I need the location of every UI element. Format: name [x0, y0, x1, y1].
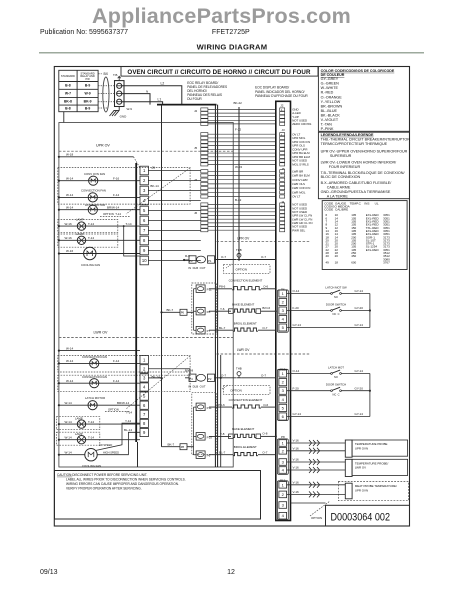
- terminal block T.B.: [115, 81, 125, 107]
- option dashed box upper: [223, 265, 270, 274]
- wire gauge table: [322, 201, 407, 270]
- svg-text:BROIL ELEMENT: BROIL ELEMENT: [234, 322, 257, 326]
- wire W-14 lower top: [59, 350, 140, 352]
- svg-text:CONVECTION ELEMENT: CONVECTION ELEMENT: [229, 278, 263, 282]
- svg-text:T-14: T-14: [88, 222, 94, 226]
- relay P6 lower broil: [196, 451, 205, 459]
- P13 pin 6: [279, 413, 287, 420]
- P8 pin 1: [279, 440, 287, 447]
- svg-text:BL-7: BL-7: [219, 450, 226, 454]
- arrow above terminal block: [118, 76, 121, 80]
- svg-text:DOOR SWITCH: DOOR SWITCH: [326, 383, 346, 387]
- svg-text:F-14: F-14: [113, 379, 120, 383]
- temperature probe lower oven box: [352, 459, 408, 475]
- svg-text:F-16: F-16: [113, 176, 120, 180]
- svg-text:W-7: W-7: [65, 92, 71, 96]
- wire L2 from terminal block: [122, 86, 182, 105]
- svg-text:OPTION: OPTION: [311, 516, 322, 520]
- svg-text:L2: L2: [161, 81, 165, 85]
- connector J6 pins (harness left): [201, 203, 208, 232]
- wire T-14 branch to pin 10: [124, 226, 140, 256]
- svg-text:TEMPERATURE PROBE/: TEMPERATURE PROBE/: [355, 461, 389, 465]
- svg-text:B/O-6: B/O-6: [262, 306, 270, 310]
- P12 pin 2: [279, 491, 287, 498]
- svg-text:10: 10: [142, 258, 147, 263]
- board connector J4 pins: [280, 203, 285, 232]
- connector lower pins 1-9: [140, 356, 148, 437]
- harness connector bar (left of ribbon): [214, 105, 216, 467]
- motor lower cooling fan: [59, 454, 85, 456]
- svg-text:W-14: W-14: [65, 435, 72, 439]
- svg-text:W-16: W-16: [65, 236, 72, 240]
- P8 pin 2: [279, 448, 287, 455]
- svg-text:T.B.: T.B.: [113, 73, 118, 77]
- svg-text:B-22: B-22: [235, 198, 242, 202]
- svg-text:P8: P8: [181, 445, 185, 449]
- svg-text:CAUTION:DISCONNECT POWER BEFOR: CAUTION:DISCONNECT POWER BEFORE SERVICIN…: [57, 473, 147, 477]
- wire P13-3 F-20 to lower door switch: [287, 390, 331, 392]
- svg-text:IN DLB OUT: IN DLB OUT: [188, 384, 206, 388]
- LWR OV dashed separator (left): [59, 336, 233, 338]
- P6 pin 2: [279, 299, 287, 306]
- svg-text:T-14: T-14: [88, 236, 94, 240]
- svg-text:COOLING FAN: COOLING FAN: [82, 464, 101, 468]
- P13 pin 3: [279, 387, 287, 394]
- svg-text:O-7: O-7: [221, 374, 226, 378]
- svg-text:J7: J7: [194, 178, 198, 182]
- svg-text:LWR OV: LWR OV: [355, 466, 366, 470]
- wire door switch to riser: [342, 310, 370, 312]
- svg-text:LAMP: LAMP: [75, 416, 83, 420]
- motor upper conv oven fan: [59, 180, 140, 182]
- EOC display board label: [255, 86, 308, 98]
- P12 pin 1: [279, 482, 287, 489]
- svg-text:BROIL ELEMENT: BROIL ELEMENT: [234, 445, 257, 449]
- svg-text:LW SPEED: LW SPEED: [99, 443, 112, 447]
- svg-text:HIGH SPEED: HIGH SPEED: [103, 450, 119, 454]
- svg-text:P11: P11: [207, 406, 212, 410]
- BK-22 vertical bus wire: [238, 107, 240, 260]
- svg-text:T-14: T-14: [88, 435, 94, 439]
- svg-text:W-14: W-14: [66, 346, 73, 350]
- svg-text:UPR OVN: UPR OVN: [355, 446, 368, 450]
- svg-text:GY-14: GY-14: [355, 323, 364, 327]
- svg-text:O-7: O-7: [262, 450, 267, 454]
- svg-text:UPR OV.-UPPER OVEN/HORNO SUPER: UPR OV.-UPPER OVEN/HORNO SUPERIOR/FOUR: [321, 150, 408, 154]
- svg-text:LAMP: LAMP: [76, 232, 84, 236]
- connector J9 upper body bar: [135, 163, 137, 442]
- svg-text:B-8: B-8: [65, 107, 71, 111]
- svg-text:CONVECTION FAN: CONVECTION FAN: [82, 375, 107, 379]
- wire table to section box: [63, 112, 65, 123]
- svg-text:BK-7: BK-7: [167, 308, 174, 312]
- svg-text:THB: THB: [236, 366, 242, 370]
- svg-text:F-14: F-14: [113, 359, 120, 363]
- motor lower convection fan 1: [59, 362, 140, 364]
- relay P8 upper bake: [196, 307, 205, 315]
- dashed enclosure upper relays: [192, 283, 217, 334]
- svg-text:J2: J2: [280, 104, 284, 108]
- svg-text:CONVECTION FAN: CONVECTION FAN: [82, 355, 107, 359]
- board connector J2 pins: [280, 108, 285, 126]
- lamp upper oven lamp 1: [58, 220, 118, 233]
- svg-text:LATCH MOT SW: LATCH MOT SW: [325, 286, 347, 290]
- wire lower cooling fan low speed Y-14: [96, 423, 141, 450]
- wire P6-5 GY-14: [287, 327, 370, 329]
- svg-text:J5: J5: [282, 167, 286, 171]
- svg-text:49: 49: [326, 260, 330, 264]
- svg-text:B/W-8: B/W-8: [185, 369, 194, 373]
- svg-text:V-16: V-16: [293, 458, 300, 462]
- svg-text:3767: 3767: [383, 260, 390, 264]
- svg-text:F-22: F-22: [235, 128, 242, 132]
- wire P13-1 O-14 to lower latch switch: [287, 373, 331, 375]
- P13 pin 5: [279, 404, 287, 411]
- svg-text:O-7: O-7: [262, 326, 267, 330]
- svg-text:GY-20: GY-20: [355, 386, 364, 390]
- svg-text:20: 20: [335, 254, 339, 258]
- wire L1 from terminal block: [122, 102, 163, 105]
- svg-text:LABEL ALL WIRES PRIOR TO DISCO: LABEL ALL WIRES PRIOR TO DISCONNECTION W…: [66, 477, 186, 481]
- meat probe dashed option box: [338, 482, 408, 501]
- svg-text:WIRING ERRORS CAN CAUSE IMPROP: WIRING ERRORS CAN CAUSE IMPROPER AND DAN…: [66, 482, 179, 486]
- svg-text:GY-14: GY-14: [293, 412, 302, 416]
- upper door switch: [331, 310, 333, 312]
- vertical feed wire upper relays: [194, 289, 197, 330]
- P8 pin 4: [279, 467, 287, 474]
- svg-text:NC C: NC C: [332, 392, 339, 396]
- heavy L1 bus to relay bar: [157, 104, 217, 106]
- svg-text:WIRING DIAGRAM: WIRING DIAGRAM: [197, 43, 268, 52]
- svg-text:DU FOUR: DU FOUR: [187, 97, 202, 101]
- board signal labels J2: [292, 108, 311, 126]
- svg-text:CONVECTION FAN: CONVECTION FAN: [81, 189, 106, 193]
- wire R-6 DLB input: [184, 259, 189, 261]
- wire P6-1 O-14 to latch switch: [287, 293, 331, 295]
- svg-text:P9-6: P9-6: [218, 403, 225, 407]
- board connector J5 pins: [280, 170, 285, 198]
- svg-text:STANDARD: STANDARD: [61, 74, 75, 78]
- svg-text:O-14: O-14: [293, 289, 300, 293]
- upper latch motor switch: [331, 293, 333, 295]
- svg-text:LATCH MOTOR: LATCH MOTOR: [85, 203, 105, 207]
- lamp upper oven lamp 2: [58, 234, 118, 247]
- svg-text:O-6: O-6: [263, 403, 268, 407]
- svg-text:09/13: 09/13: [40, 569, 58, 576]
- svg-text:Y-6: Y-6: [220, 307, 225, 311]
- svg-text:P11: P11: [207, 288, 212, 292]
- svg-text:Y-14: Y-14: [125, 419, 131, 423]
- svg-text:Publication No: 5995637377: Publication No: 5995637377: [40, 29, 128, 36]
- svg-text:BX: BX: [104, 72, 109, 76]
- lamp lower oven lamp 1: [56, 417, 99, 430]
- dashed option diagonal lower: [126, 356, 190, 409]
- svg-text:GY-14: GY-14: [293, 323, 302, 327]
- svg-text:TERMICO/PROTECTEUR THERMIQUE: TERMICO/PROTECTEUR THERMIQUE: [321, 142, 388, 146]
- P12 pin 4: [279, 512, 287, 519]
- svg-text:BAKE ELEMENT: BAKE ELEMENT: [232, 303, 254, 307]
- svg-text:V-16: V-16: [293, 481, 300, 485]
- svg-text:BK-14: BK-14: [152, 375, 161, 379]
- wire THB lower to board: [241, 377, 276, 379]
- svg-text:P8-6: P8-6: [219, 285, 226, 289]
- svg-text:LATCH MOT: LATCH MOT: [328, 366, 344, 370]
- svg-text:P.-PINK: P.-PINK: [321, 127, 334, 131]
- svg-text:F-14: F-14: [113, 193, 120, 197]
- svg-text:UPR OV: UPR OV: [237, 237, 250, 241]
- svg-text:NO: NO: [334, 375, 338, 379]
- svg-text:LATCH MOTOR: LATCH MOTOR: [85, 396, 105, 400]
- svg-text:V-16: V-16: [293, 466, 300, 470]
- svg-text:CODE CALIBRE: CODE CALIBRE: [324, 207, 348, 211]
- svg-text:GY-14: GY-14: [355, 289, 364, 293]
- svg-text:W-14: W-14: [66, 205, 73, 209]
- UPR OV dashed separator (left): [59, 150, 233, 152]
- dashed group box: lower convection fan 1: [58, 356, 190, 373]
- svg-text:F-20: F-20: [293, 306, 300, 310]
- svg-text:T-14: T-14: [126, 222, 132, 226]
- svg-text:B-8: B-8: [65, 84, 71, 88]
- wire W-18 upper: [59, 156, 134, 158]
- svg-text:A LA TERRE: A LA TERRE: [321, 194, 349, 198]
- svg-text:V-16: V-16: [293, 447, 300, 451]
- svg-text:MEAT PROBE TEMPERATURE/: MEAT PROBE TEMPERATURE/: [355, 484, 397, 488]
- P6 pin 3: [279, 307, 287, 314]
- ground symbol GND: [110, 107, 120, 117]
- option dashed note upper: [100, 215, 130, 217]
- wire N stub: [122, 94, 150, 105]
- svg-text:W-14: W-14: [65, 420, 72, 424]
- svg-text:DOOR SWITCH: DOOR SWITCH: [326, 303, 346, 307]
- svg-text:BL-14: BL-14: [124, 428, 132, 432]
- svg-text:LWR OV.-LOWER OVEN HORNO INFER: LWR OV.-LOWER OVEN HORNO INFERIOR/: [321, 161, 398, 165]
- oven circuit title box: [121, 67, 318, 77]
- svg-text:CONVECTION ELEMENT: CONVECTION ELEMENT: [229, 398, 263, 402]
- svg-text:UPR OVN: UPR OVN: [355, 488, 368, 492]
- diagram outer border: [54, 67, 409, 527]
- P13 pin 4: [279, 396, 287, 403]
- svg-text:NO: NO: [334, 295, 338, 299]
- svg-text:OPTION T-14: OPTION T-14: [103, 212, 121, 216]
- terminal screw N: [117, 91, 122, 96]
- dashed group box: upper convection fans: [58, 168, 190, 205]
- P13 pin 2: [279, 379, 287, 386]
- dashed option diagonal upper: [126, 168, 190, 214]
- probe 3 wires V-14: [287, 484, 346, 486]
- legend box: [318, 132, 409, 199]
- svg-text:BL-7: BL-7: [219, 326, 226, 330]
- svg-text:W-14: W-14: [66, 359, 73, 363]
- svg-text:D0003064 002: D0003064 002: [331, 512, 391, 524]
- svg-text:NC C: NC C: [332, 312, 339, 316]
- harness ribbon wires group 2 (F-22): [208, 134, 276, 164]
- svg-text:P1: P1: [208, 259, 212, 263]
- svg-text:J3: J3: [282, 128, 286, 132]
- svg-text:LEGEND/LEYENDA/LEGENDE: LEGEND/LEYENDA/LEGENDE: [321, 133, 374, 137]
- svg-text:FFET2725P: FFET2725P: [212, 29, 250, 36]
- svg-text:GY-14: GY-14: [355, 412, 364, 416]
- svg-text:W-9: W-9: [127, 107, 133, 111]
- svg-text:W-14: W-14: [65, 450, 72, 454]
- svg-text:ZERO CROSS: ZERO CROSS: [292, 122, 311, 126]
- svg-text:LAMP: LAMP: [75, 432, 83, 436]
- connector J7 pins (harness left): [201, 170, 208, 198]
- svg-text:BR/W-14: BR/W-14: [117, 401, 129, 405]
- EOC relay board label: [187, 81, 227, 101]
- svg-text:L1: L1: [158, 97, 162, 101]
- P6 pin 4: [279, 316, 287, 323]
- svg-text:600: 600: [351, 260, 356, 264]
- svg-text:O-8: O-8: [262, 431, 267, 435]
- relay P11 upper convection: [196, 285, 205, 293]
- harness ribbon wires group 3 (W-22): [208, 171, 276, 196]
- svg-text:CONV OVN FAN: CONV OVN FAN: [84, 172, 105, 176]
- lower door switch: [331, 390, 333, 392]
- twisted pair marks probe 1: [309, 440, 312, 446]
- P6 pin 5: [279, 324, 287, 331]
- header rule: [39, 52, 424, 54]
- wire latch switch to GY-14 riser: [342, 293, 370, 295]
- UPR OV dashed separator (harness): [217, 240, 311, 242]
- svg-text:P2: P2: [189, 259, 193, 263]
- svg-text:T-14: T-14: [88, 420, 94, 424]
- P6 pin 1: [279, 290, 287, 297]
- board connector P8 shell: [277, 439, 288, 475]
- DLB relay lower (P4 / P2): [189, 374, 196, 381]
- long feeder bus down left of relays: [161, 105, 163, 447]
- LWR OV dashed separator (harness): [217, 353, 311, 355]
- connector J2 pins (harness left): [201, 108, 208, 126]
- svg-text:BAKE ELEMENT: BAKE ELEMENT: [232, 427, 254, 431]
- svg-text:BLOC DE CONNEXION: BLOC DE CONNEXION: [321, 175, 361, 179]
- svg-text:MOL SYRLS: MOL SYRLS: [292, 162, 309, 166]
- svg-text:BK.-BLACK: BK.-BLACK: [321, 114, 341, 118]
- board connector P6 shell: [277, 290, 288, 332]
- board connector P13 shell: [277, 369, 288, 420]
- option label for meat probe: [310, 501, 330, 516]
- svg-text:O-14: O-14: [293, 369, 300, 373]
- svg-text:GND.-GROUND/PUESTA A TIERRA/MI: GND.-GROUND/PUESTA A TIERRA/MISE: [321, 190, 391, 194]
- svg-text:450: 450: [351, 254, 356, 258]
- svg-text:P8: P8: [281, 435, 285, 439]
- svg-text:AppliancePartsPros.com: AppliancePartsPros.com: [92, 4, 351, 28]
- svg-text:BK-22: BK-22: [234, 101, 243, 105]
- motor upper convection fan: [59, 196, 140, 198]
- connector J9 pins 1-10: [140, 166, 148, 265]
- svg-text:COLOR CODE/CODIGOS DE COLOR/CO: COLOR CODE/CODIGOS DE COLOR/CODE: [321, 69, 395, 73]
- terminal screw L1: [117, 99, 122, 104]
- relay P10 lower bake: [196, 433, 205, 441]
- probe 2 connector bar: [345, 459, 352, 476]
- svg-text:COOLING FAN: COOLING FAN: [81, 263, 100, 267]
- wire lower cooling fan high speed BL-14: [97, 432, 140, 454]
- svg-text:W-16: W-16: [66, 249, 73, 253]
- svg-text:OV LT: OV LT: [292, 195, 300, 199]
- P8 pin 3: [279, 459, 287, 466]
- svg-text:TEMPERATURE PROBE: TEMPERATURE PROBE: [355, 442, 388, 446]
- svg-text:O.-ORANGE: O.-ORANGE: [321, 95, 343, 99]
- lower relay area enclosure edge: [137, 442, 139, 467]
- svg-text:V.-VIOLET: V.-VIOLET: [321, 118, 339, 122]
- svg-text:12: 12: [227, 569, 235, 576]
- svg-text:P4: P4: [189, 377, 193, 381]
- THB thermal breaker upper: [237, 253, 241, 257]
- svg-text:GY.-GREY: GY.-GREY: [321, 77, 339, 81]
- drawing number box: [326, 505, 410, 526]
- svg-text:J2: J2: [194, 109, 198, 113]
- wire BK-7 feed to lower relays: [162, 446, 181, 448]
- svg-text:W-16: W-16: [65, 222, 72, 226]
- svg-text:V-16: V-16: [293, 490, 300, 494]
- svg-text:18: 18: [335, 260, 339, 264]
- svg-text:OPTION: OPTION: [108, 407, 119, 411]
- svg-text:BR/W-14: BR/W-14: [107, 205, 119, 209]
- twisted pair marks probe 2: [309, 459, 312, 465]
- probe 1 wires V-14: [287, 442, 346, 444]
- lower latch motor switch: [331, 373, 333, 375]
- harness ribbon wires group 1: [208, 110, 276, 124]
- THB thermal breaker lower: [237, 372, 241, 376]
- svg-text:J4: J4: [281, 200, 285, 204]
- svg-text:R.-RED: R.-RED: [321, 91, 334, 95]
- svg-text:J9: J9: [152, 166, 156, 170]
- wire DLB out to THB upper: [215, 259, 237, 261]
- relay P7 upper broil: [196, 326, 205, 334]
- board connector P12 shell: [277, 481, 288, 520]
- svg-text:OVEN CIRCUIT // CIRCUITO DE HO: OVEN CIRCUIT // CIRCUITO DE HORNO // CIR…: [127, 69, 311, 76]
- svg-text:W-14: W-14: [66, 193, 73, 197]
- P12 pin 3: [279, 502, 287, 509]
- svg-text:THB.-THERMAL CIRCUIT BREAKER/I: THB.-THERMAL CIRCUIT BREAKER/INTERRUPTOR: [321, 137, 411, 141]
- twisted pair marks probe 3: [309, 482, 312, 488]
- svg-text:V-16: V-16: [293, 439, 300, 443]
- relay P11 lower convection: [196, 403, 205, 411]
- svg-text:O-7: O-7: [261, 374, 266, 378]
- svg-text:W-9: W-9: [85, 92, 91, 96]
- svg-text:BK-14: BK-14: [150, 184, 159, 188]
- armored cable sheath (ellipse): [103, 77, 109, 112]
- board signal labels J4: [292, 203, 312, 233]
- svg-text:T.-TAN: T.-TAN: [321, 123, 333, 127]
- lamp lower oven lamp 2: [56, 432, 99, 445]
- dashed enclosure lower relays: [192, 393, 217, 455]
- wire P6-3 F-20 to door switch: [287, 310, 331, 312]
- motor lower latch motor: [59, 404, 140, 406]
- connector J5 pins (harness left): [201, 133, 208, 166]
- board connector J3 pins: [280, 133, 285, 166]
- wire P13-6 GY-14: [287, 416, 370, 418]
- svg-text:G.-GREEN: G.-GREEN: [321, 82, 340, 86]
- P13 pin 1: [279, 370, 287, 377]
- EOC board strip: [276, 101, 291, 520]
- svg-text:W-14: W-14: [66, 176, 73, 180]
- DLB relay upper (P2 / P1): [189, 256, 196, 263]
- svg-text:SUPERIEUR: SUPERIEUR: [321, 154, 352, 158]
- svg-text:W-14: W-14: [66, 379, 73, 383]
- svg-text:PW: PW: [86, 77, 91, 81]
- svg-text:FOUR INFERIEUR: FOUR INFERIEUR: [321, 165, 361, 169]
- left oven components section box: [59, 123, 233, 468]
- svg-text:O-6: O-6: [263, 285, 268, 289]
- svg-text:W.-WHITE: W.-WHITE: [321, 86, 339, 90]
- temperature probe upper oven box: [352, 440, 408, 456]
- svg-text:BK-7: BK-7: [168, 442, 175, 446]
- dashed leads from table to cable: [98, 86, 114, 108]
- probe 3 connector bar: [345, 483, 352, 499]
- board signal labels J5: [292, 169, 310, 198]
- svg-text:OPTION: OPTION: [236, 267, 248, 271]
- svg-text:UPR OV: UPR OV: [96, 144, 110, 148]
